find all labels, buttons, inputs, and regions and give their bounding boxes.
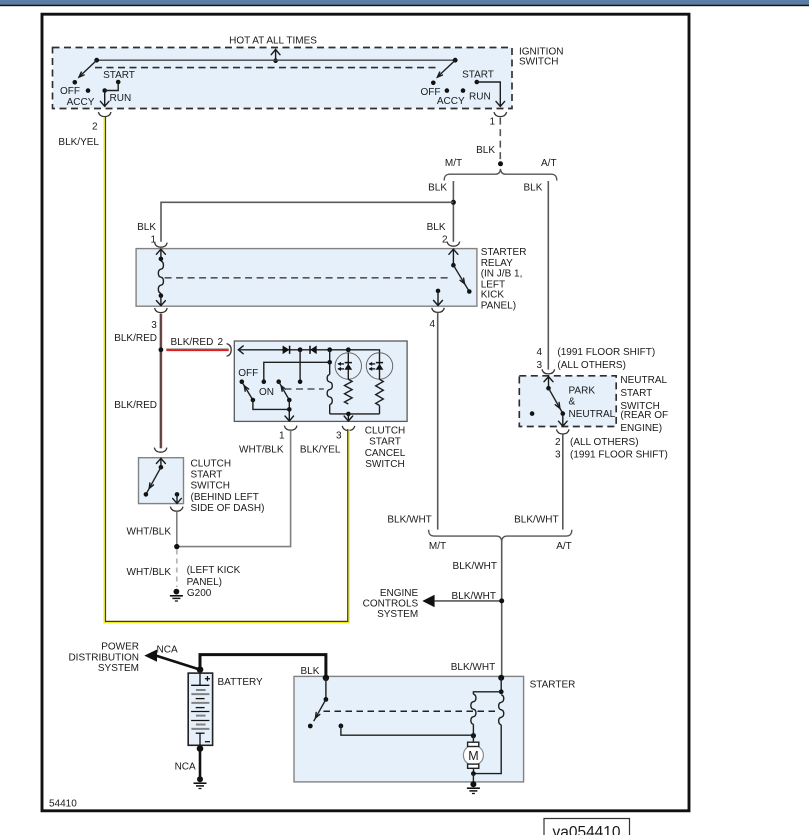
cancel pin 3 exit arrow [344,414,353,421]
cancel ON arm [276,379,291,402]
wire battery positive thick [200,655,326,678]
ground starter [467,781,480,793]
contact RUN right [461,88,466,93]
svg-text:NCA: NCA [157,644,178,655]
svg-text:STARTER: STARTER [481,247,527,258]
node battery negative [197,745,204,752]
clutch switch entry arrow [156,458,165,469]
pin 1 receptacle [494,112,507,117]
receptacle relay pin 3 [155,308,168,313]
receptacle relay pin 2 [447,242,460,247]
wire BLK A/T branch [547,181,549,370]
arrow to hot feed [271,50,280,64]
ignition switch inner dashed separator [95,67,436,69]
starter hold-in coil [473,695,503,774]
node diode junction [298,347,303,352]
svg-text:54410: 54410 [49,799,77,810]
svg-text:1: 1 [489,117,495,128]
wire BLK M/T branch riser [452,181,454,242]
wire BLK/YEL long run [104,117,349,623]
label CLUTCH START SWITCH (BEHIND LEFT SIDE OF DASH) [191,459,265,514]
LED L1 [335,353,361,380]
svg-text:(ALL OTHERS): (ALL OTHERS) [557,360,626,371]
svg-text:START: START [462,70,494,81]
svg-text:(IN J/B 1,: (IN J/B 1, [481,269,523,280]
receptacle clutch switch bottom [170,507,183,512]
svg-text:BLK/RED: BLK/RED [114,333,157,344]
contact START right [475,80,480,85]
svg-text:NEUTRAL: NEUTRAL [569,409,616,420]
svg-text:NEUTRAL: NEUTRAL [620,375,667,386]
starter switch output contact [339,724,477,739]
clutch switch arm [144,467,161,496]
svg-text:ON: ON [259,387,274,398]
relay pin 1 entry arrow [156,249,165,261]
brace merge [429,530,572,542]
receptacle relay pin 4 [432,308,445,313]
svg-text:2: 2 [218,337,224,348]
NSS open contact [530,411,535,416]
svg-text:ENGINE): ENGINE) [620,423,662,434]
svg-text:2: 2 [442,235,448,246]
svg-text:SWITCH: SWITCH [365,459,404,470]
svg-text:BLK: BLK [476,145,495,156]
cancel switch pin 2 entry arrow [238,346,243,354]
svg-text:BLK/WHT: BLK/WHT [514,514,558,525]
svg-text:PANEL): PANEL) [187,577,222,588]
svg-text:4: 4 [536,347,542,358]
svg-text:M/T: M/T [445,158,462,169]
svg-text:A/T: A/T [541,158,557,169]
node starter control feed [498,675,504,681]
svg-text:1: 1 [279,430,285,441]
svg-text:SYSTEM: SYSTEM [98,663,139,674]
svg-text:CLUTCH: CLUTCH [365,425,406,436]
contact OFF left [73,80,78,85]
relay coil [158,261,163,293]
svg-text:HOT AT ALL TIMES: HOT AT ALL TIMES [229,35,317,46]
svg-text:OFF: OFF [60,86,80,97]
battery symbol [188,673,212,745]
clutch switch exit contact [173,492,182,503]
wire WHT/BLK from clutch switch [176,511,178,546]
cancel OFF arm [240,379,256,402]
ignition switch left wafer arm [79,58,99,77]
receptacle cancel pin 1 [284,426,297,431]
svg-text:BLK: BLK [523,182,542,193]
label ENGINE CONTROLS SYSTEM [363,588,419,620]
svg-text:WHT/BLK: WHT/BLK [127,527,172,538]
arrow to engine controls [422,595,434,607]
ignition switch box [53,48,513,109]
svg-text:2: 2 [555,437,561,448]
node motor ground junction [471,771,476,776]
cancel link dashed [285,388,324,390]
wire BLK/RED vertical [160,314,161,449]
node pin 1 junction [287,400,292,412]
svg-text:4: 4 [429,319,435,330]
NSS arm [549,388,566,416]
wire ON contact riser [298,350,303,384]
top banner bar [0,0,809,5]
wire START right to pin 1 [477,82,501,99]
label IGNITION SWITCH [519,46,563,67]
svg-text:(BEHIND LEFT: (BEHIND LEFT [191,492,259,503]
svg-text:BLK/RED: BLK/RED [114,400,157,411]
svg-text:BATTERY: BATTERY [218,677,264,688]
svg-text:2: 2 [92,122,98,133]
svg-text:SYSTEM: SYSTEM [377,609,418,620]
NSS entry arrow [544,377,553,391]
svg-text:RUN: RUN [469,91,491,102]
resistor R1 [344,379,352,404]
wire solenoid feed split [473,678,503,694]
svg-text:PANEL): PANEL) [481,301,516,312]
wire to starter ground [472,774,474,782]
svg-text:ENGINE: ENGINE [380,588,419,599]
contact RUN left [102,88,107,93]
wire OFF arm to pin 1 [253,400,289,409]
wire BLK/WHT from NSS [562,434,564,529]
wire NCA dashed to ground [176,550,178,588]
svg-text:3: 3 [151,320,157,331]
svg-text:M/T: M/T [429,541,446,552]
node LED1 feed [346,347,351,352]
svg-text:NCA: NCA [175,762,196,773]
diode D1 [283,346,290,355]
svg-text:RUN: RUN [110,93,132,104]
svg-text:POWER: POWER [101,642,139,653]
node battery positive [197,666,204,673]
relay pin 4 contact [434,289,443,306]
svg-text:SWITCH: SWITCH [191,481,230,492]
svg-text:RELAY: RELAY [481,258,513,269]
wire BLK to relay pin 1 [161,202,453,242]
svg-text:3: 3 [336,430,342,441]
relay pin 2 entry arrow [449,249,458,267]
svg-text:STARTER: STARTER [530,680,576,691]
node split M/T A/T [498,161,503,166]
receptacle cancel switch pin 2 [227,344,232,357]
wire dashed BLK from pin 1 [499,118,501,160]
svg-text:DISTRIBUTION: DISTRIBUTION [68,652,139,663]
wire BLK/WHT from relay pin 4 [437,313,439,530]
svg-text:(1991 FLOOR SHIFT): (1991 FLOOR SHIFT) [570,450,668,461]
svg-text:(ALL OTHERS): (ALL OTHERS) [570,437,639,448]
receptacle NSS top [542,369,555,374]
wire NCA battery feed diagonal [156,656,200,670]
resistor R2 [376,379,384,414]
svg-text:ACCY: ACCY [437,96,465,107]
svg-text:SIDE OF DASH): SIDE OF DASH) [191,503,265,514]
label STARTER RELAY [481,247,527,312]
cancel pin 1 exit arrow [285,409,294,421]
node coil feed [327,347,332,352]
starter link dashed [324,710,500,712]
svg-text:CONTROLS: CONTROLS [363,599,419,610]
svg-text:BLK: BLK [428,182,447,193]
svg-text:WHT/BLK: WHT/BLK [127,567,172,578]
wire BLK/WHT merged run [501,540,503,677]
svg-text:START: START [620,388,652,399]
starter switch [308,678,328,729]
pin 1 exit arrow [496,99,505,106]
starter box [294,676,524,782]
svg-text:BLK/WHT: BLK/WHT [387,514,431,525]
svg-text:BLK/YEL: BLK/YEL [300,445,341,456]
relay switch arm [453,265,471,294]
receptacle clutch start switch top [154,448,167,453]
node starter solenoid feed [323,675,329,681]
svg-text:CANCEL: CANCEL [365,448,406,459]
svg-text:BLK: BLK [137,222,156,233]
svg-text:3: 3 [555,450,561,461]
node WHT/BLK junction [174,544,179,549]
ground G200 [170,589,183,601]
ground battery [194,776,207,788]
contact ACCY right [445,88,450,93]
svg-text:SWITCH: SWITCH [519,57,558,68]
svg-text:OFF: OFF [238,368,258,379]
receptacle cancel pin 3 [342,426,355,431]
svg-text:BLK/WHT: BLK/WHT [453,561,497,572]
svg-text:A/T: A/T [556,541,572,552]
node M/T branch tee [451,200,456,205]
starter relay box [136,249,477,307]
wire WHT/BLK from cancel pin 1 [177,430,291,546]
contact START left [116,80,121,85]
wire OFF feed [262,350,333,384]
svg-text:BLK/WHT: BLK/WHT [451,662,495,673]
label POWER DISTRIBUTION SYSTEM [68,642,139,674]
starter pull-in coil [471,694,476,735]
va054410 box [544,819,630,835]
label NEUTRAL START SWITCH (REAR OF ENGINE) [620,375,668,434]
node pin 3 junction [346,412,351,417]
receptacle relay pin 1 [155,243,168,248]
svg-text:START: START [369,437,401,448]
svg-text:(REAR OF: (REAR OF [620,410,668,421]
diagram border frame [42,14,689,811]
svg-text:PARK: PARK [569,386,596,397]
receptacle NSS bottom [557,429,570,434]
svg-text:(1991 FLOOR SHIFT): (1991 FLOOR SHIFT) [557,347,655,358]
ignition switch right wafer arm [437,58,457,77]
svg-text:KICK: KICK [481,290,505,301]
clutch start cancel switch box [234,341,407,421]
svg-text:BLK: BLK [301,666,320,677]
svg-text:WHT/BLK: WHT/BLK [239,445,284,456]
wire START to RUN feed left [105,82,119,90]
wire hot bus [97,59,456,61]
svg-text:va054410: va054410 [552,824,620,835]
svg-text:ACCY: ACCY [67,97,95,108]
diode D2 [310,346,317,355]
brace split [444,169,557,181]
wire BLK/WHT to engine controls [435,600,502,602]
svg-text:BLK/WHT: BLK/WHT [452,591,496,602]
LED L2 [366,353,392,380]
wire cancel top feed [238,350,379,353]
svg-text:BLK: BLK [427,222,446,233]
pin 2 exit arrow [100,91,109,107]
svg-text:START: START [191,470,223,481]
label CLUTCH START CANCEL SWITCH [365,425,406,470]
wire battery negative [199,745,202,776]
pin 2 receptacle [98,112,111,117]
svg-text:BLK/YEL: BLK/YEL [58,137,99,148]
node engine controls tee [499,598,504,603]
node BLK/RED branch [159,347,164,352]
neutral start switch box [519,376,616,427]
svg-text:M: M [468,749,478,763]
relay coil bottom node [159,293,164,298]
svg-text:CLUTCH: CLUTCH [191,459,232,470]
svg-text:BLK/RED: BLK/RED [171,337,214,348]
NSS exit arrow [559,414,568,427]
clutch start switch box [139,458,184,504]
starter motor M1 [463,735,483,773]
contact ACCY left [86,88,91,93]
relay mechanical link dashed [165,277,450,279]
label LEFT KICK PANEL [187,565,241,588]
relay pin 3 exit arrow [156,296,165,306]
wire bottom bus cancel [330,413,380,415]
svg-text:(LEFT KICK: (LEFT KICK [187,565,241,576]
svg-text:START: START [103,70,135,81]
cancel coil [327,362,332,414]
contact OFF right [431,81,436,86]
svg-text:IGNITION: IGNITION [519,46,563,57]
svg-text:&: & [569,396,576,407]
wire BLK/RED branch to cancel switch pin 2 [166,349,228,350]
arrow to power distribution [144,650,157,662]
label PARK & NEUTRAL [569,386,616,420]
svg-text:G200: G200 [187,588,212,599]
